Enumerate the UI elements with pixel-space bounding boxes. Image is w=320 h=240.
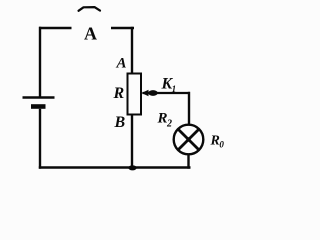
wire top-left horizontal segment: [39, 27, 72, 29]
wiper arrowhead: [142, 90, 149, 97]
svg-text:A: A: [84, 24, 97, 44]
lamp R0 cross stroke 2: [178, 129, 199, 150]
svg-text:B: B: [114, 114, 126, 131]
junction dot at bottom node: [128, 165, 136, 170]
lamp center dot: [186, 137, 190, 141]
wire top-right horizontal segment: [111, 27, 134, 29]
wiper wire horizontal: [143, 92, 191, 94]
battery B1 long plate: [23, 96, 55, 99]
wire bottom horizontal: [39, 166, 191, 168]
wire lamp bottom vertical: [187, 154, 189, 168]
lamp R0 cross stroke 1: [178, 129, 199, 150]
rheostat R body: [128, 74, 142, 115]
wire rheostat bottom vertical: [131, 115, 133, 169]
wire left vertical upper: [39, 27, 41, 98]
wire left vertical lower: [39, 109, 41, 169]
svg-text:R: R: [113, 85, 125, 102]
svg-text:A: A: [116, 56, 127, 72]
lamp R0 circle: [174, 125, 204, 155]
wiper slider blob: [148, 90, 158, 96]
wire right vertical (top corner to rheostat): [131, 27, 133, 75]
battery B1 short thick plate: [31, 104, 46, 109]
ammeter A1 arc: [79, 7, 101, 11]
wire lamp branch vertical upper: [188, 92, 190, 125]
